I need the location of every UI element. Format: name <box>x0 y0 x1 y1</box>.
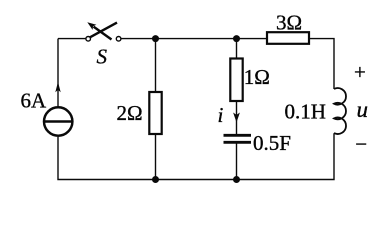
svg-text:+: + <box>354 60 366 84</box>
svg-text:i: i <box>218 103 224 127</box>
svg-text:1Ω: 1Ω <box>244 65 270 89</box>
wire top-left segment <box>58 38 86 40</box>
current source 6A <box>21 82 73 136</box>
wire mid branch upper <box>236 39 238 59</box>
svg-text:0.1H: 0.1H <box>285 99 326 123</box>
svg-text:u: u <box>357 97 369 122</box>
wire left upper segment <box>57 39 59 107</box>
svg-text:0.5F: 0.5F <box>253 131 291 155</box>
wire mid branch arrow segment <box>236 101 238 134</box>
inductor L 0.1H <box>285 88 346 134</box>
svg-text:2Ω: 2Ω <box>117 101 143 125</box>
current arrow i <box>218 103 240 127</box>
svg-text:3Ω: 3Ω <box>276 11 302 35</box>
switch S <box>86 22 121 68</box>
svg-text:−: − <box>355 132 367 156</box>
capacitor C 0.5F <box>224 131 291 155</box>
svg-text:S: S <box>97 45 108 69</box>
wire 2ohm branch lower <box>155 134 157 180</box>
node bottom B <box>233 176 240 183</box>
svg-text:6A: 6A <box>21 88 48 112</box>
resistor R 3ohm <box>267 11 309 44</box>
wire top-middle segment <box>121 38 267 40</box>
node top B <box>233 35 240 42</box>
wire mid branch lower <box>236 144 238 180</box>
wire right lower segment <box>58 133 334 179</box>
wire top-right segment <box>309 39 334 89</box>
resistor R 2ohm <box>117 92 162 134</box>
voltage u labels <box>354 60 368 156</box>
node bottom A <box>152 176 159 183</box>
wire 2ohm branch upper <box>155 39 157 92</box>
node top A <box>152 35 159 42</box>
resistor R 1ohm <box>230 59 270 102</box>
